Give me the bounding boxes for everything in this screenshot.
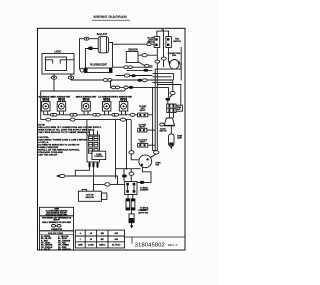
switch S4 bbox=[98, 96, 116, 112]
bake relay box bbox=[125, 182, 137, 195]
svg-text:BRACKET: BRACKET bbox=[86, 196, 95, 199]
lower bus connector bbox=[120, 118, 125, 121]
bottom table bbox=[75, 230, 124, 248]
svg-text:ONLY WIDE ENOUGH TO FIT UNDER: ONLY WIDE ENOUGH TO FIT UNDER TERMINALS. bbox=[38, 131, 90, 134]
wire y85 drop bbox=[168, 87, 170, 97]
title underline bbox=[92, 19, 130, 21]
double bus junction to motor bbox=[154, 151, 159, 154]
svg-text:AND THE CIRCUIT: AND THE CIRCUIT bbox=[38, 153, 58, 156]
wire from control to arrow bbox=[75, 168, 89, 176]
wire to motor bottom bbox=[116, 168, 141, 170]
svg-text:BK: BK bbox=[101, 239, 105, 241]
svg-text:FLUORESCENT: FLUORESCENT bbox=[90, 65, 108, 67]
wire y86.8 bbox=[111, 80, 169, 87]
bus under switches bbox=[44, 114, 136, 116]
ballast wire right bbox=[109, 42, 113, 67]
sensor diagonal wire bbox=[138, 62, 144, 66]
sensor connector bbox=[138, 54, 157, 56]
lamp terminal 1 bbox=[53, 74, 55, 76]
fan switch label bbox=[173, 38, 181, 43]
interlock switch 1 bbox=[154, 30, 164, 48]
svg-text:V - VIOLET: V - VIOLET bbox=[41, 249, 51, 251]
oven lamp box bbox=[42, 51, 74, 75]
connector chain below bake box bbox=[128, 195, 133, 199]
svg-text:AMP-1: AMP-1 bbox=[99, 244, 106, 247]
ballast wire top bbox=[80, 39, 99, 70]
sensor box bbox=[126, 50, 138, 63]
terminal block bbox=[167, 104, 176, 113]
wire y67 bbox=[112, 66, 153, 68]
svg-text:SMALL TERMINALS OF EACH SIDE: SMALL TERMINALS OF EACH SIDE bbox=[42, 221, 71, 224]
connector box B bbox=[138, 125, 147, 132]
svg-text:LOAD: LOAD bbox=[88, 244, 94, 247]
color code box bbox=[40, 231, 74, 250]
outer border bbox=[38, 28, 186, 250]
svg-text:MR - MAROON: MR - MAROON bbox=[58, 248, 71, 251]
motor bottom hook bbox=[137, 168, 151, 183]
oven control bbox=[87, 131, 106, 163]
wire y70.5 bbox=[127, 70, 153, 72]
part-number strip line bbox=[125, 236, 186, 238]
switch stems bbox=[44, 111, 126, 115]
interlock switch 2 bbox=[166, 37, 172, 48]
svg-text:SWITCH: SWITCH bbox=[159, 131, 167, 133]
lamp terminal 2 bbox=[70, 74, 72, 76]
right corner drop from y80 wire bbox=[168, 80, 173, 104]
vertical to oven control bbox=[86, 120, 88, 135]
note block 2 bbox=[38, 136, 88, 157]
svg-text:BALLAST: BALLAST bbox=[97, 33, 108, 36]
connector box A TO SURFACE UNIT bbox=[138, 106, 148, 117]
bottom-left legend box 1 bbox=[40, 207, 74, 216]
wire y80 long bbox=[71, 79, 173, 81]
drops to bake relay box bbox=[123, 169, 125, 182]
svg-text:318045802: 318045802 bbox=[135, 243, 165, 249]
inner right bus bbox=[180, 47, 182, 80]
control pins bottom bbox=[90, 162, 98, 168]
svg-text:SUP.: SUP. bbox=[177, 109, 181, 111]
svg-text:LINE: LINE bbox=[78, 245, 83, 247]
switch S5 bbox=[115, 96, 133, 112]
anti-tip box bbox=[82, 189, 87, 191]
switch S2 bbox=[53, 96, 71, 112]
lamp stems to wires bbox=[54, 79, 71, 91]
door bell funnel bbox=[169, 113, 173, 119]
wire y75.5 bbox=[116, 75, 153, 77]
ballast bbox=[97, 33, 109, 53]
right vertical buses bbox=[153, 87, 157, 150]
oven lamp capsule bbox=[170, 126, 172, 134]
interlock mid vertical bbox=[163, 31, 165, 67]
wire y84.4 to pwr tab bbox=[157, 85, 181, 106]
wire y91 bbox=[41, 89, 126, 91]
connector box C bbox=[138, 140, 148, 147]
svg-text:WH: WH bbox=[101, 233, 105, 235]
svg-text:ELEMENT: ELEMENT bbox=[140, 190, 149, 192]
tube left connector bbox=[80, 68, 84, 72]
ballast wire 2 bbox=[85, 49, 98, 70]
switch S1 bbox=[37, 96, 55, 112]
svg-text:LAMP: LAMP bbox=[177, 137, 183, 140]
svg-text:SWITCH: SWITCH bbox=[173, 41, 181, 43]
note block 1 bbox=[38, 124, 101, 134]
wire y184.4 bbox=[94, 183, 125, 185]
convection fan motor bbox=[168, 53, 181, 69]
right bus wires bbox=[155, 63, 181, 70]
svg-text:FAN: FAN bbox=[172, 54, 176, 57]
svg-text:WIRING DIAGRAM: WIRING DIAGRAM bbox=[93, 15, 126, 19]
interlock top wires bbox=[157, 31, 169, 36]
switch S3 bbox=[76, 96, 97, 112]
fluorescent light switch label bbox=[147, 37, 155, 43]
svg-text:REV. A: REV. A bbox=[168, 243, 179, 247]
svg-text:AL VOLT: AL VOLT bbox=[112, 244, 121, 247]
fluorescent tube bbox=[85, 65, 113, 73]
svg-text:LIGHTS SW.: LIGHTS SW. bbox=[138, 212, 149, 214]
connector pairs on bus bbox=[50, 113, 54, 116]
oven fan motor bbox=[139, 155, 152, 168]
svg-text:RECPT.: RECPT. bbox=[140, 110, 147, 112]
lower bus bbox=[41, 119, 132, 121]
svg-text:CONTROL: CONTROL bbox=[94, 156, 103, 158]
svg-text:LIGHT: LIGHT bbox=[54, 51, 62, 54]
center verticals bbox=[115, 120, 117, 179]
wire y82.6 bbox=[153, 82, 173, 84]
legend box 2 bbox=[40, 216, 74, 231]
